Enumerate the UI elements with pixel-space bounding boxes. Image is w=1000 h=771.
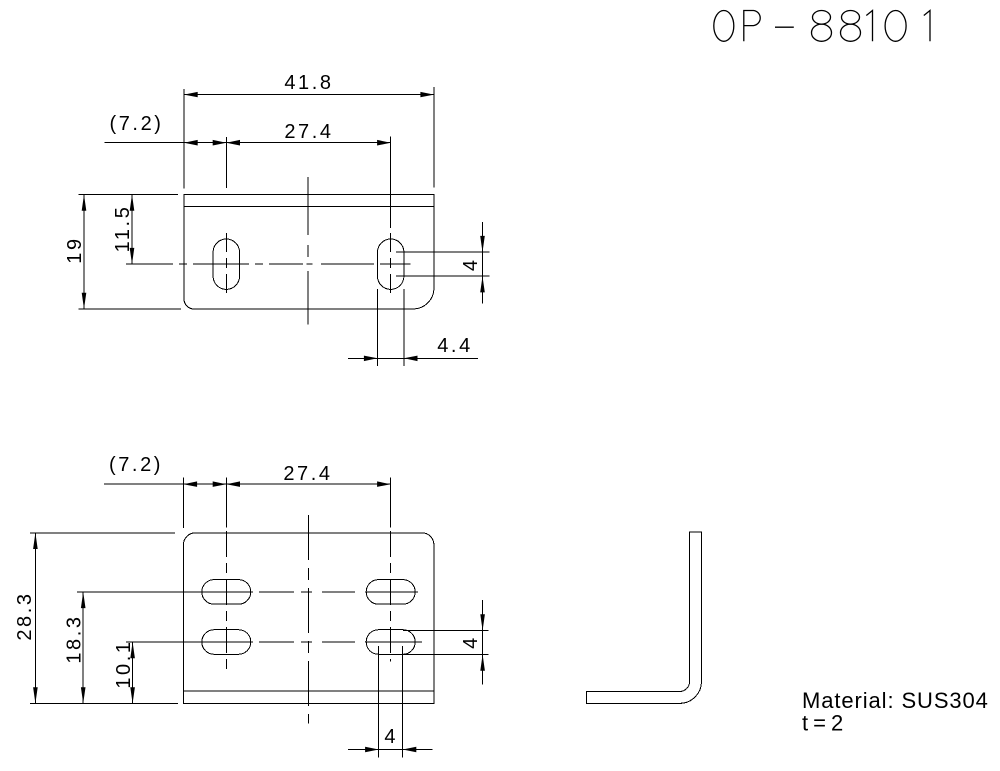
- svg-text:11.5: 11.5: [112, 205, 134, 253]
- bottom view bend line: [183, 690, 434, 692]
- bottom view left column centerline: [225, 531, 227, 670]
- svg-text:4: 4: [460, 635, 482, 649]
- top view horizontal hole centerline: [126, 263, 411, 265]
- bottom view slot top-right: [366, 580, 415, 605]
- bottom view upper row centerline: [77, 591, 418, 593]
- bottom view lower row centerline: [126, 641, 422, 643]
- dimension 27.4: [226, 121, 390, 146]
- dimension 27.4 bottom view: [226, 463, 390, 487]
- svg-text:10.1: 10.1: [113, 639, 135, 688]
- svg-text:27.4: 27.4: [283, 463, 332, 485]
- bottom view plate outline: [183, 533, 434, 704]
- bottom view vertical centerline: [308, 515, 310, 724]
- side view L profile: [586, 532, 701, 704]
- top view vertical centerline: [307, 177, 309, 325]
- svg-text:28.3: 28.3: [14, 591, 36, 640]
- top view right slot hole: [378, 239, 404, 289]
- dimension 4.4: [348, 289, 478, 366]
- dimension 18.3: [64, 592, 86, 704]
- bottom view right column centerline: [390, 531, 392, 662]
- dimension 4 (bottom view slot height): [403, 600, 489, 684]
- dimension 11.5: [112, 195, 134, 265]
- dimension (7.2): [104, 113, 390, 228]
- dimension 4 (bottom view slot straight): [348, 646, 432, 758]
- dimension 4 (top view slot): [396, 222, 490, 304]
- svg-text:41.8: 41.8: [284, 72, 333, 94]
- dimension 28.3: [14, 533, 178, 704]
- svg-text:Material: SUS304: Material: SUS304: [802, 688, 989, 713]
- svg-text:(7.2): (7.2): [109, 113, 163, 135]
- svg-text:19: 19: [64, 236, 86, 263]
- svg-text:(7.2): (7.2): [109, 454, 163, 476]
- title OP-88101 (hand drawn CAD strokes): [714, 10, 930, 41]
- dimension (7.2) bottom view: [104, 454, 391, 528]
- top view right slot centerline: [390, 233, 392, 297]
- top view left slot centerline: [225, 233, 227, 297]
- dimension 19: [64, 195, 181, 310]
- svg-text:4: 4: [384, 726, 398, 748]
- svg-text:27.4: 27.4: [284, 121, 333, 143]
- svg-text:4.4: 4.4: [437, 335, 473, 357]
- bottom view slot bottom-right: [366, 630, 415, 655]
- svg-text:t=2: t=2: [802, 711, 848, 736]
- svg-text:18.3: 18.3: [64, 614, 86, 663]
- top view bend line: [184, 205, 434, 207]
- top view left slot hole: [213, 239, 239, 289]
- top view plate outline: [184, 195, 434, 310]
- dimension 10.1: [113, 639, 135, 703]
- svg-text:4: 4: [460, 257, 482, 271]
- dimension 41.8: [184, 72, 434, 189]
- bottom view slot top-left: [202, 580, 251, 605]
- bottom view slot bottom-left: [202, 630, 251, 655]
